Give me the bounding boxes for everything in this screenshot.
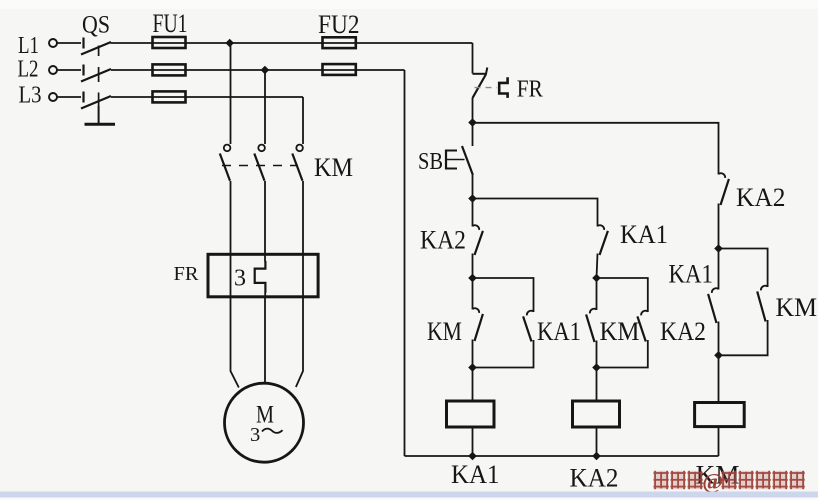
wire branch2 mid	[597, 254, 598, 279]
svg-text:3: 3	[250, 424, 260, 446]
fuse FU1 pole1	[153, 37, 186, 48]
wire node A to branch3	[473, 123, 719, 175]
wire branch2 loop bottom	[597, 340, 648, 368]
node C3	[714, 244, 723, 253]
label KM (coil)	[696, 461, 740, 490]
label FR (contact)	[517, 77, 543, 103]
terminal L2	[49, 66, 57, 74]
coil KA2	[573, 401, 620, 427]
contact KA2 (branch3 NO top)	[719, 173, 729, 205]
node D1	[468, 363, 477, 372]
svg-text:L3: L3	[19, 82, 42, 109]
svg-text:KA1: KA1	[620, 220, 668, 249]
svg-text:KM: KM	[600, 317, 640, 346]
contact KM (branch2 self-lock)	[586, 309, 596, 342]
svg-text:KA1: KA1	[451, 460, 500, 489]
svg-text:FR: FR	[517, 77, 543, 103]
contact KA2 (branch1 NO)	[473, 225, 483, 255]
wire branch1 upper	[472, 199, 474, 227]
svg-text:KA1: KA1	[537, 317, 581, 346]
svg-text:QS: QS	[82, 12, 110, 39]
bottom blue band	[0, 492, 818, 498]
contact KA1 (branch1 parallel)	[523, 311, 533, 342]
wire KM pole1 drop	[230, 43, 232, 144]
label L3	[19, 82, 42, 109]
wire coil KM to bus	[718, 427, 720, 456]
node C1	[468, 274, 477, 283]
wire branch1 mid	[472, 254, 474, 279]
label KA1 (coil)	[451, 460, 500, 489]
wire motor lead2	[264, 297, 266, 384]
wire branch3 KA1 upper	[718, 249, 720, 290]
node row1 junction	[225, 39, 234, 48]
contact KM (branch3 parallel)	[757, 286, 767, 322]
svg-text:KA2: KA2	[736, 183, 786, 212]
label KA1 (branch2)	[620, 220, 668, 249]
wire branch3 to coil	[718, 355, 720, 402]
wire FR contact to node A	[472, 98, 474, 123]
label 3 (in FR box)	[234, 266, 246, 292]
fuse FU1 pole3	[153, 91, 186, 102]
wire branch3 mid	[718, 204, 720, 249]
wire branch2 loop top	[597, 278, 648, 312]
wire branch3 loop bottom	[719, 320, 768, 355]
wire KM pole3 drop	[302, 97, 304, 144]
wire motor lead1	[231, 297, 239, 388]
svg-text:KA2: KA2	[420, 226, 466, 255]
node A	[468, 118, 477, 127]
wire FR pole2 upper	[264, 181, 266, 262]
node C2	[592, 274, 601, 283]
label KM (branch2)	[600, 317, 640, 346]
contact KA2 (branch2 parallel)	[637, 311, 647, 342]
wire neutral drop from FU2	[404, 70, 406, 456]
label KA1 (branch3)	[669, 260, 714, 289]
wire branch1 to coil	[472, 368, 474, 402]
svg-text:KM: KM	[427, 317, 462, 346]
thermal relay FR heater box	[208, 254, 318, 296]
node row2 junction	[261, 66, 270, 75]
pushbutton SB	[446, 123, 473, 199]
wire branch1 loop top	[473, 278, 534, 312]
coil KA1	[447, 401, 495, 427]
svg-text:3: 3	[234, 266, 246, 292]
terminal L3	[49, 93, 57, 101]
wire FR pole2 lower	[264, 292, 266, 297]
svg-text:KM: KM	[314, 153, 353, 182]
node bus2	[592, 452, 601, 461]
wire branch1 KM upper	[472, 278, 474, 310]
node bus1	[468, 452, 477, 461]
contactor KM main contacts	[220, 145, 303, 181]
label QS	[82, 12, 110, 39]
contact KA1 (branch2 NO)	[598, 225, 608, 255]
wire L1 to QS	[57, 42, 81, 44]
svg-text:KM: KM	[776, 293, 818, 322]
FR heater hook symbol	[255, 261, 266, 293]
wire branch3 loop top	[719, 249, 768, 288]
wire branch1 KM lower	[472, 340, 474, 368]
fuse FU2 pole1	[323, 37, 356, 48]
label SB	[418, 149, 443, 175]
label KM (main contacts)	[314, 153, 353, 182]
svg-text:FR: FR	[174, 264, 199, 285]
wire control feed top corner	[472, 43, 474, 74]
wire node B to branch2	[473, 199, 598, 227]
svg-text:@: @	[702, 469, 723, 495]
wire branch2 KM upper	[596, 278, 598, 310]
svg-text:KA1: KA1	[669, 260, 714, 289]
wire motor lead3	[296, 297, 303, 387]
wire row3 QS to corner	[111, 96, 303, 98]
label KM (branch1)	[427, 317, 462, 346]
label L2	[18, 56, 39, 83]
label FU2	[318, 10, 360, 39]
contact FR (NC thermal relay contact)	[473, 68, 508, 99]
wire L2 to QS	[57, 69, 81, 71]
fuse FU1 pole2	[153, 64, 186, 75]
contact KM (branch1 self-lock)	[473, 308, 483, 341]
svg-text:FU2: FU2	[318, 10, 360, 39]
label FU1	[153, 9, 188, 38]
wire branch1 loop bottom	[473, 340, 534, 368]
label KA2 (branch3)	[736, 183, 786, 212]
svg-text:L2: L2	[18, 56, 39, 83]
svg-text:SB: SB	[418, 149, 443, 175]
wire L3 to QS	[57, 96, 81, 98]
contact KA1 (branch3)	[708, 288, 718, 323]
label KA1 (branch1 parallel)	[537, 317, 581, 346]
coil KM	[695, 403, 745, 427]
label KM (branch3 parallel)	[776, 293, 818, 322]
wire coil KA2 to bus	[596, 427, 598, 456]
wire branch2 KM lower	[596, 341, 598, 368]
wire row1 QS to corner	[111, 42, 473, 44]
svg-text:FU1: FU1	[153, 9, 188, 38]
label FR (heater)	[174, 264, 199, 285]
motor M	[225, 383, 304, 462]
node B	[468, 194, 477, 203]
switch QS (3-pole disconnector)	[81, 38, 115, 125]
node D3	[714, 351, 723, 360]
label KA2 (branch1)	[420, 226, 466, 255]
node D2	[592, 363, 601, 372]
label L1	[18, 32, 39, 59]
label KA2 (branch2 parallel)	[660, 317, 706, 346]
label KA2 (coil)	[570, 464, 619, 493]
wire row2 QS to corner	[111, 69, 405, 71]
wire FR pole3	[302, 181, 304, 297]
wire coil KA1 to bus	[472, 427, 474, 456]
wire KM pole2 drop	[264, 70, 266, 144]
terminal L1	[49, 39, 57, 47]
wire branch3 KA1 lower	[718, 322, 720, 356]
wire bottom bus	[405, 455, 719, 457]
wire branch2 to coil	[596, 368, 598, 402]
fuse FU2 pole2	[323, 64, 356, 75]
svg-text:KA2: KA2	[570, 464, 619, 493]
wire FR pole1	[230, 181, 232, 297]
svg-text:KA2: KA2	[660, 317, 706, 346]
watermark sohu	[654, 469, 805, 495]
